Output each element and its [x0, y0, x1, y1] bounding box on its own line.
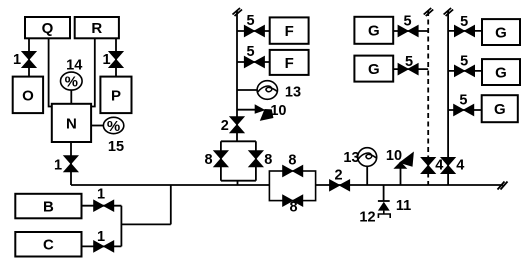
svg-text:5: 5	[403, 14, 411, 30]
gauge 14 percent	[61, 72, 83, 90]
wire Q to valve 1a	[28, 38, 30, 77]
svg-text:2: 2	[334, 168, 342, 184]
svg-text:G: G	[368, 61, 380, 78]
wire branch to check valve 10a	[237, 109, 255, 111]
svg-text:5: 5	[459, 93, 467, 109]
wire main line left	[71, 184, 269, 186]
svg-text:4: 4	[435, 158, 443, 174]
svg-text:13: 13	[343, 150, 359, 166]
valve 1e after C	[94, 241, 114, 252]
valve 5b to F2	[244, 57, 264, 68]
wire N down to main line	[70, 142, 72, 185]
valve 4b on right manifold	[441, 158, 455, 174]
svg-text:G: G	[495, 64, 507, 81]
svg-text:15: 15	[108, 139, 124, 155]
valve 1c below N	[64, 156, 78, 172]
svg-text:5: 5	[405, 54, 413, 70]
svg-text:11: 11	[396, 198, 411, 214]
svg-text:1: 1	[13, 52, 21, 68]
valve 8b bypass right	[249, 151, 263, 167]
svg-text:2: 2	[221, 118, 229, 134]
wire B/C vertical	[120, 206, 122, 247]
valve 8a bypass left	[214, 151, 228, 167]
wire right manifold line	[447, 11, 449, 185]
box F1	[270, 17, 309, 43]
svg-text:5: 5	[460, 14, 468, 30]
wire riser to main line	[170, 185, 172, 224]
wire G-left-1 branch	[393, 30, 428, 32]
wire branch to F2	[237, 61, 270, 63]
box R	[75, 17, 119, 38]
svg-text:C: C	[43, 237, 54, 254]
wire branch to F1	[237, 30, 270, 32]
svg-text:1: 1	[102, 52, 110, 68]
wire main line right	[316, 184, 503, 186]
box G left 2	[354, 56, 393, 82]
svg-text:O: O	[22, 87, 34, 104]
svg-text:Q: Q	[42, 20, 54, 37]
bypass loop rectangle horizontal	[269, 171, 315, 201]
valve 5a to F1	[244, 26, 264, 37]
valve 5g to G right 3	[454, 105, 474, 116]
box C	[15, 232, 81, 257]
wire bypass loop bottom	[221, 180, 256, 182]
wire C to valve 1e	[82, 245, 122, 247]
svg-text:G: G	[368, 23, 380, 40]
valve 8d loop bottom	[283, 195, 303, 206]
break mark middle supply	[233, 8, 243, 16]
wire B to valve 1d	[82, 205, 122, 207]
svg-text:13: 13	[285, 85, 301, 101]
svg-text:%: %	[107, 118, 120, 135]
wire G-right-1 branch	[448, 30, 482, 32]
valve 5e to G right 1	[455, 26, 475, 37]
svg-text:R: R	[91, 20, 102, 37]
break mark right manifold	[444, 8, 454, 16]
svg-text:5: 5	[246, 13, 254, 29]
gauge 15 percent	[103, 117, 123, 135]
wire bypass loop top	[221, 140, 256, 142]
box G right 1	[482, 19, 520, 45]
svg-text:8: 8	[289, 200, 297, 216]
box P	[100, 77, 131, 114]
wire bypass loop stub	[237, 181, 239, 185]
valve 5c to G left 1	[398, 26, 418, 37]
drain valve 11	[378, 201, 390, 214]
wire check valve 10b stem	[400, 168, 402, 185]
check valve 10a	[255, 104, 274, 121]
svg-text:G: G	[495, 24, 507, 41]
valve 2a middle vertical	[230, 117, 244, 133]
wire R to valve 1b	[115, 38, 117, 77]
svg-text:F: F	[285, 23, 294, 40]
svg-text:12: 12	[359, 210, 375, 226]
wire drain stub	[383, 185, 385, 201]
svg-text:5: 5	[460, 53, 468, 69]
wire middle vertical supply	[236, 11, 238, 141]
box G right 3	[482, 95, 518, 122]
svg-text:10: 10	[270, 103, 286, 119]
valve 5f to G right 2	[455, 65, 475, 76]
wire B/C connector	[121, 223, 170, 225]
valve 1d after B	[94, 200, 114, 211]
svg-text:4: 4	[456, 158, 464, 174]
wire G-left-2 branch	[393, 68, 428, 70]
svg-text:N: N	[66, 115, 77, 132]
svg-text:10: 10	[386, 148, 402, 164]
break mark dashed line	[424, 8, 434, 16]
wire R to tank N	[91, 38, 95, 107]
wire N to gauge 15	[91, 125, 104, 127]
svg-text:%: %	[65, 74, 78, 91]
wire Q to tank N	[49, 38, 52, 107]
wire bypass loop left	[220, 141, 222, 180]
check valve 10b	[393, 152, 414, 169]
svg-text:5: 5	[246, 44, 254, 60]
wire G-right-3 branch	[448, 109, 482, 111]
box B	[15, 194, 81, 219]
svg-text:1: 1	[97, 187, 105, 203]
valve 5d to G left 2	[398, 64, 418, 75]
valve 4a on dashed line	[421, 158, 435, 174]
wire G-right-2 branch	[448, 70, 482, 72]
valve 8c loop top	[283, 166, 303, 177]
svg-text:14: 14	[66, 57, 82, 73]
valve 2b on main line	[330, 180, 350, 191]
svg-text:1: 1	[97, 229, 105, 245]
svg-text:1: 1	[54, 158, 62, 174]
wire bypass loop right	[255, 141, 257, 180]
svg-text:G: G	[494, 101, 506, 118]
svg-text:8: 8	[264, 152, 272, 168]
svg-text:F: F	[285, 55, 294, 72]
valve 1b below R	[109, 52, 123, 68]
svg-text:8: 8	[288, 153, 296, 169]
box Q	[25, 17, 70, 38]
break mark main line end	[498, 182, 508, 190]
valve 1a below Q	[22, 52, 36, 68]
pump 13a	[257, 81, 277, 100]
box G left 1	[354, 17, 393, 44]
wire gauge 14 to N	[70, 90, 72, 104]
svg-text:P: P	[111, 87, 121, 104]
box N	[52, 104, 91, 142]
box G right 2	[482, 59, 520, 85]
svg-text:B: B	[43, 198, 54, 215]
pump 13b	[358, 148, 377, 167]
wire dashed crossfeed line	[427, 11, 429, 185]
box F2	[270, 50, 309, 75]
box O	[13, 77, 43, 114]
drain cap 12	[378, 214, 390, 218]
svg-text:8: 8	[204, 152, 212, 168]
wire branch to gauge 13a	[237, 89, 257, 91]
wire gauge 13b stem	[366, 166, 368, 185]
